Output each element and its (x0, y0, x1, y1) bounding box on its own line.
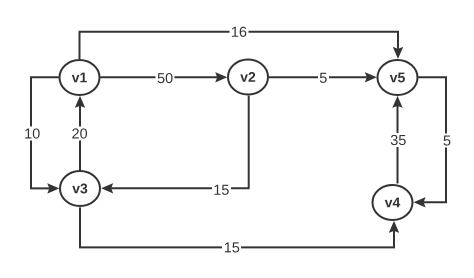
label 15 on edge v3->v4 (222, 241, 241, 255)
node v4 (373, 185, 413, 220)
node v2 (228, 60, 268, 95)
node v1 (60, 60, 100, 95)
wire edge v5->v4 right route (414, 77, 446, 207)
label 50 on edge v1->v2 (156, 71, 175, 85)
wire edge v4->v5 (392, 96, 402, 184)
wire edge v2->v3 (101, 96, 249, 194)
label 5 on edge v2->v5 (318, 71, 329, 85)
wire edge v1->v5 top route (80, 32, 404, 59)
wire edge v3->v4 bottom route (80, 207, 399, 247)
wire edge v1->v2 (101, 72, 228, 82)
label 16 on edge v1->v5 (230, 25, 249, 39)
label 15 on edge v2->v3 (212, 183, 231, 197)
label 5 on edge v5->v4 (442, 134, 453, 148)
node v3 (60, 171, 100, 206)
wire edge v1->v3 left route (31, 77, 59, 193)
label 10 on edge v1->v3 (23, 127, 42, 141)
wire edge v3->v1 (75, 96, 85, 171)
node v5 (378, 60, 418, 95)
label 35 on edge v4->v5 (389, 133, 408, 147)
wire edge v2->v5 (269, 72, 377, 82)
label 20 on edge v3->v1 (71, 127, 90, 141)
